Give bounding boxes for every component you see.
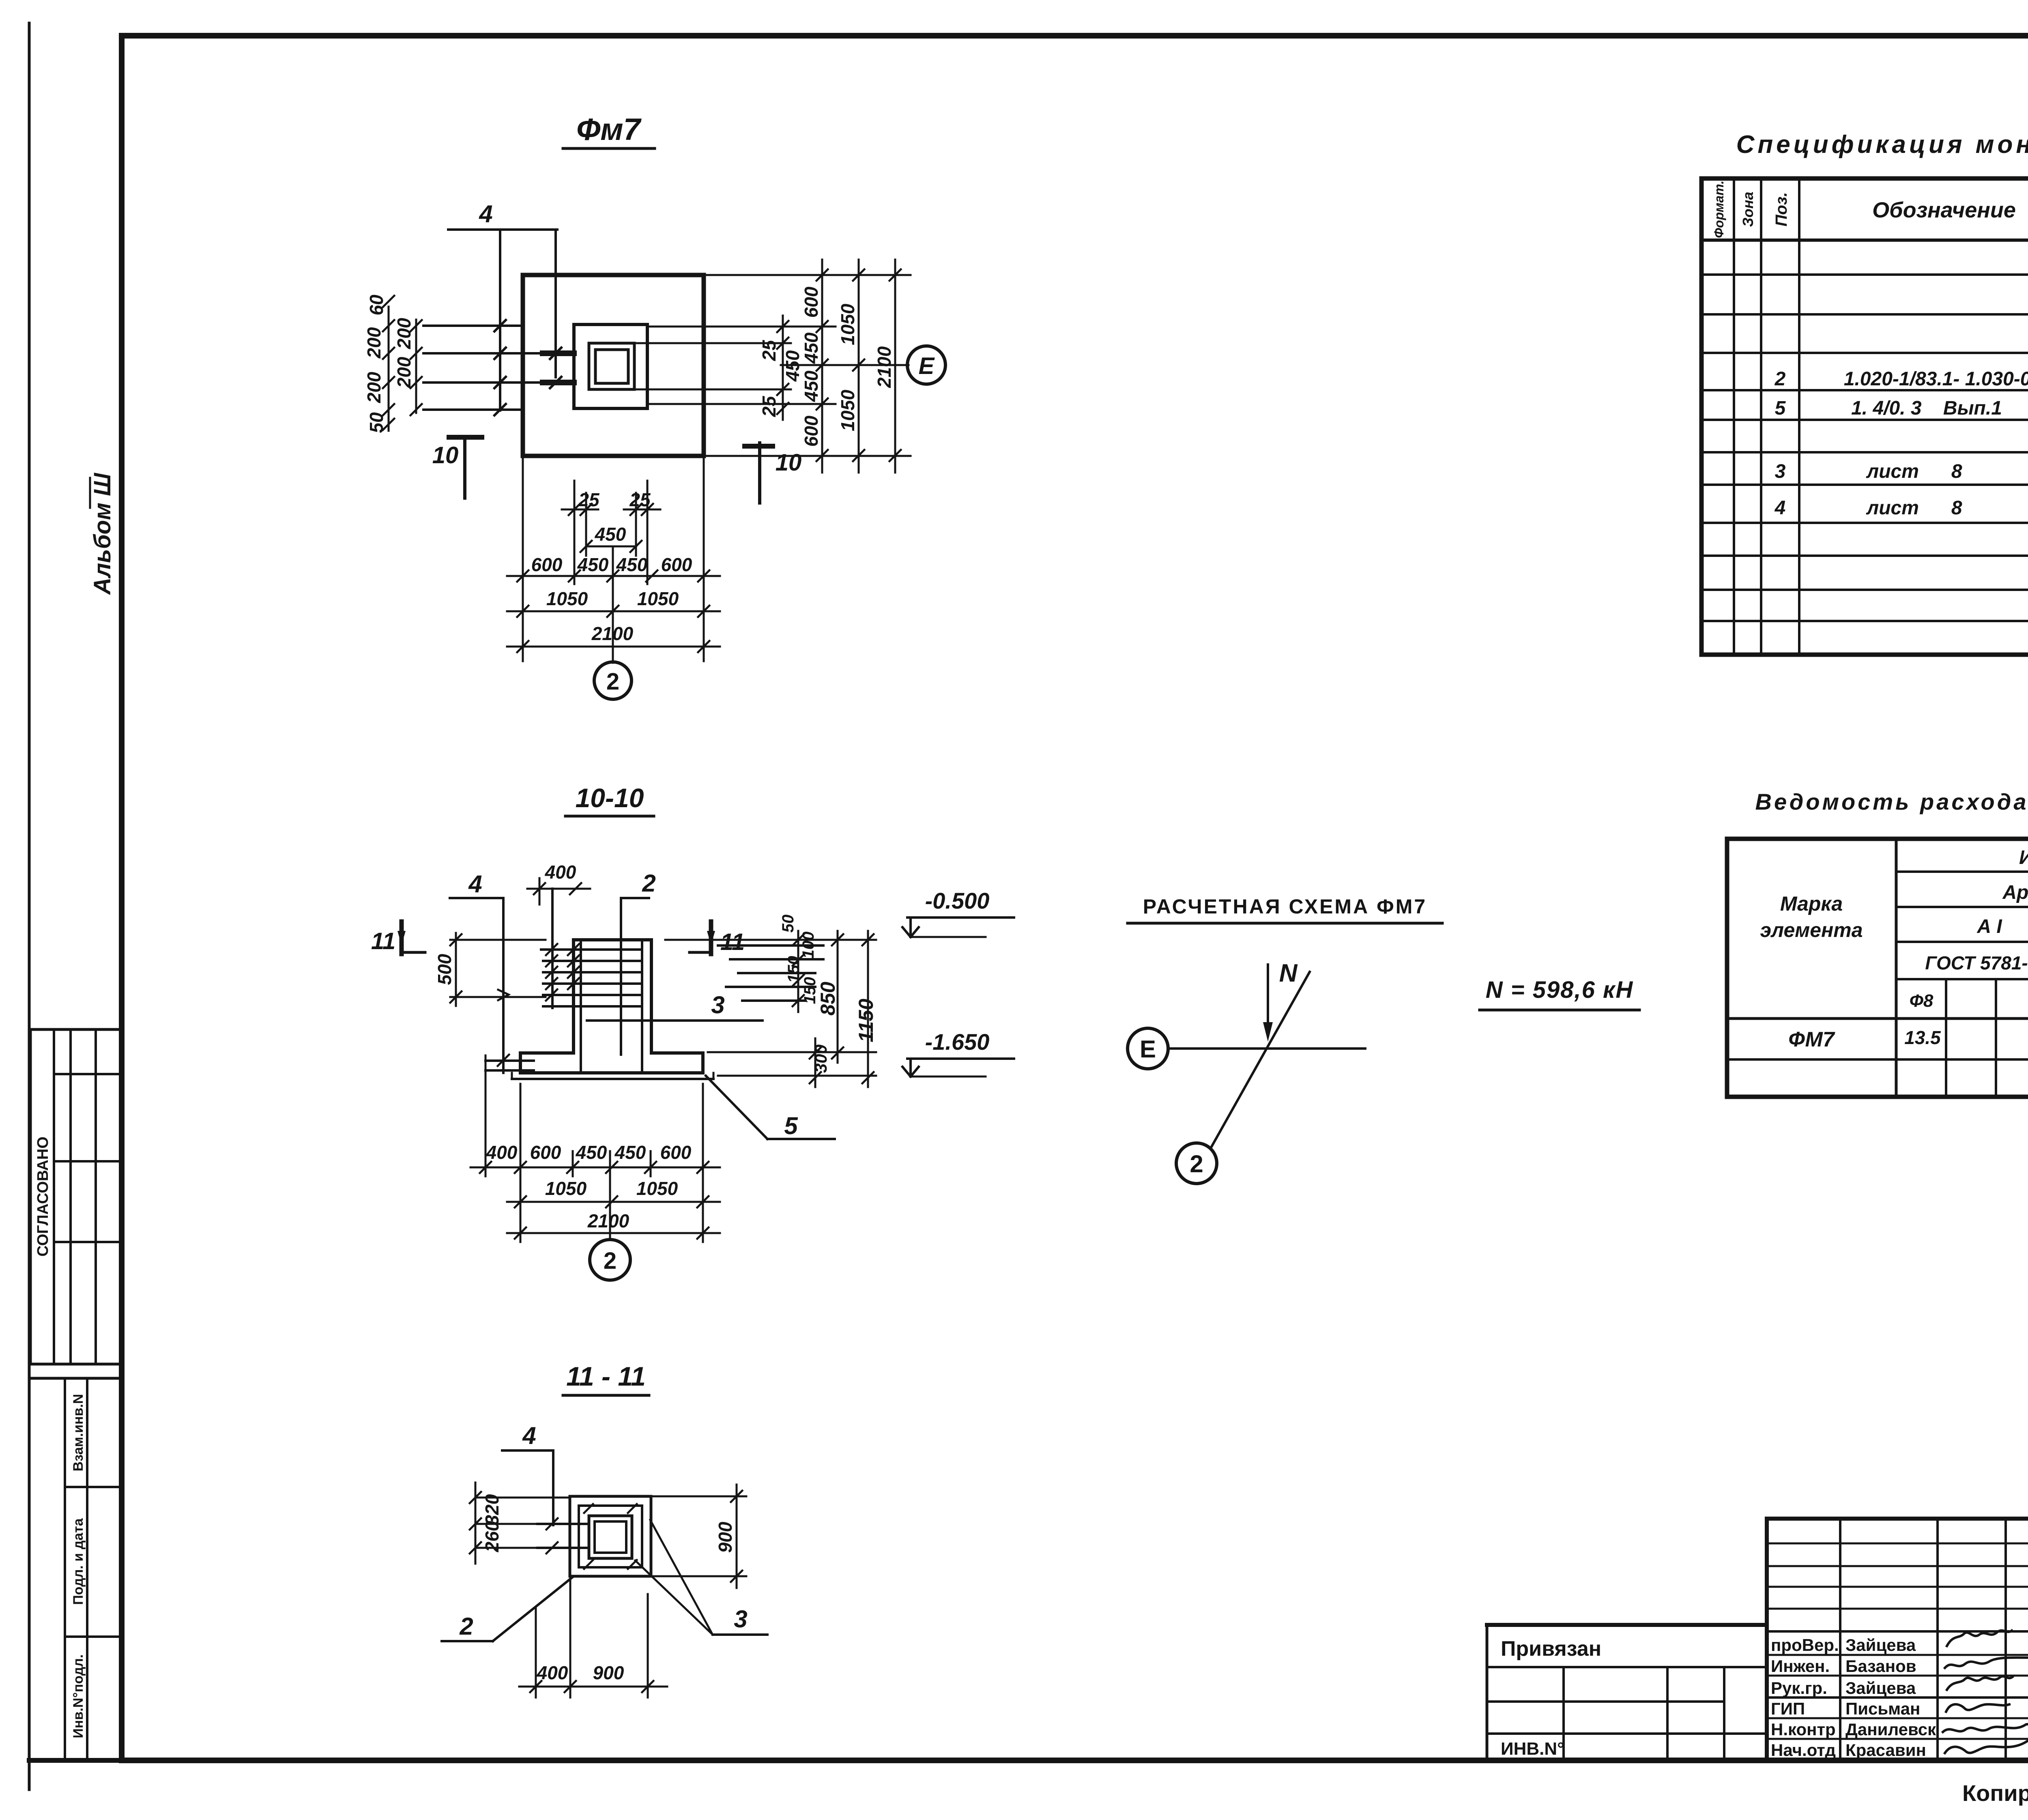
svg-text:60: 60 [366,294,387,316]
svg-text:1050: 1050 [636,1178,678,1199]
dimension 300 (footing thickness) [810,1038,830,1087]
svg-text:А I: А I [1976,916,2002,937]
svg-text:600: 600 [661,554,692,575]
dimension 500 (section left) [434,933,546,1006]
svg-text:450: 450 [801,370,822,402]
specification row pos 5 [1775,393,2028,421]
svg-text:Зайцева: Зайцева [1845,1678,1916,1698]
svg-text:Копировал:: Копировал: [1962,1780,2028,1806]
svg-text:N: N [1279,959,1298,987]
axis bubble 2 (scheme) [1176,1143,1217,1184]
svg-text:450: 450 [577,554,609,575]
svg-text:проВер.: проВер. [1771,1635,1839,1655]
svg-text:600: 600 [801,286,822,318]
specification table grid [1701,178,2028,655]
svg-text:Подл. и дата: Подл. и дата [71,1518,86,1605]
svg-text:600: 600 [801,415,822,447]
dimension 400 900 (section 11-11 bottom) [519,1578,667,1698]
svg-text:10: 10 [432,442,459,468]
svg-text:1050: 1050 [837,389,858,431]
svg-text:ИНВ.N°: ИНВ.N° [1501,1739,1564,1759]
svg-text:1050: 1050 [837,303,858,345]
section title 11-11 [563,1361,649,1395]
plan view title Фм7 [563,112,655,148]
svg-text:400: 400 [486,1142,518,1163]
plan right extension lines [636,275,911,456]
axis bubble 2 (section 10-10) [590,1240,630,1280]
svg-text:200: 200 [363,327,385,359]
svg-text:5: 5 [1775,398,1786,419]
dimension 25 25 (plan bottom) [562,489,660,515]
svg-text:Изделия арматурные: Изделия арматурные [2019,847,2028,868]
svg-text:Спецификация монолитных фунд: Спецификация монолитных фундаментов ФМ7 [1736,131,2028,159]
svg-text:Марка: Марка [1780,892,1843,915]
svg-text:Рук.гр.: Рук.гр. [1771,1678,1827,1698]
dimension 25 450 25 (plan right) [758,316,803,420]
dimension 900 (section 11-11 right) [653,1485,746,1588]
pedestal rebar verticals (section 10-10) [581,940,642,1070]
dimension 2100 (plan bottom) [507,623,720,652]
dimension 450 (plan bottom) [580,524,642,552]
title block: handwritten signatures [1943,1631,2028,1753]
svg-text:260: 260 [481,1521,503,1552]
section title 10-10 [565,783,654,816]
svg-text:200: 200 [363,372,385,403]
svg-text:3: 3 [1775,461,1786,482]
svg-text:1050: 1050 [545,1178,587,1199]
axis line E (scheme) [1168,1047,1365,1050]
svg-text:400: 400 [537,1662,568,1683]
svg-text:1050: 1050 [637,588,679,609]
svg-text:450: 450 [595,524,626,545]
svg-text:Красавин: Красавин [1845,1740,1926,1760]
svg-text:Ф8: Ф8 [1910,991,1933,1011]
dimension chain 400 600 450 450 600 (section bottom) [470,1142,720,1173]
steel table headers [1760,847,2028,1011]
svg-text:Поз.: Поз. [1772,192,1790,227]
svg-text:Альбом Ш: Альбом Ш [89,473,116,595]
svg-text:E: E [919,353,935,379]
svg-text:150: 150 [785,956,803,983]
svg-text:600: 600 [660,1142,692,1163]
leader for item 4 (section 11-11) [502,1422,553,1525]
svg-text:лист 8: лист 8 [1866,461,1962,482]
specification table title [1736,131,2028,159]
scheme title Расчетная схема ФМ7 [1128,895,1442,923]
svg-text:РАСЧЕТНАЯ СХЕМА ФМ7: РАСЧЕТНАЯ СХЕМА ФМ7 [1143,895,1427,918]
svg-text:4: 4 [522,1422,536,1449]
svg-text:3: 3 [711,991,724,1019]
base mesh item 5 (section 10-10) [512,1073,713,1079]
dimension 2100 (plan right) [874,260,901,473]
plan bottom extension lines [523,456,704,663]
svg-text:450: 450 [614,1142,646,1163]
svg-text:-1.650: -1.650 [925,1029,990,1055]
lower-left inventory table [30,1378,122,1758]
svg-text:900: 900 [593,1662,624,1683]
elevation mark -0.500 [902,888,1014,937]
anchor box double outline (section 11-11) [589,1516,632,1558]
section mark 11 (right) [690,922,745,955]
specification row pos 2 [1774,367,2028,390]
leader for item 4 (plan) [448,200,557,410]
svg-text:Н.контр: Н.контр [1771,1720,1836,1739]
svg-text:5: 5 [784,1112,798,1139]
svg-text:850: 850 [816,982,839,1016]
svg-text:600: 600 [530,1142,561,1163]
dimension chain 600 450 450 600 (plan bottom) [507,554,720,582]
svg-text:Нач.отд: Нач.отд [1771,1740,1836,1760]
dimension 1150 (section right) [855,931,877,1087]
axis bubble 2 (plan) [594,662,632,699]
leader for item 3 (section 11-11) [635,1520,767,1635]
svg-text:2: 2 [1190,1150,1203,1178]
svg-text:500: 500 [434,954,455,985]
svg-text:25: 25 [758,395,780,417]
svg-text:Взам.инв.N: Взам.инв.N [71,1394,86,1472]
axis line 2 (scheme) [1212,972,1310,1147]
svg-text:10-10: 10-10 [576,783,644,813]
svg-text:600: 600 [531,554,563,575]
dimension chain 1050 1050 (section bottom) [507,1178,720,1208]
rebar stubs right (section 10-10) [718,945,823,1001]
footer: Копировал line [1962,1777,2028,1807]
drawing sheet outer trim line (left) [28,23,31,1790]
svg-text:25: 25 [629,489,651,510]
svg-text:2: 2 [459,1613,473,1640]
svg-text:ГОСТ 5781- 82: ГОСТ 5781- 82 [1925,952,2028,973]
title block: Привязан table [1487,1625,1767,1760]
section mark 10 (right) [745,443,801,503]
svg-text:Ведомость расхода стали на: Ведомость расхода стали на один элемент, [1755,789,2028,814]
elevation mark -1.650 [902,1029,1014,1077]
svg-text:450: 450 [782,350,803,382]
anchor bolt lines (plan, left) [423,320,574,415]
svg-text:Письман: Письман [1845,1699,1920,1718]
svg-text:11: 11 [371,928,395,954]
svg-text:100: 100 [799,932,817,959]
steel table data row ФМ7 [1788,1022,2028,1051]
title block: signature names [1845,1635,1936,1760]
title block: signature roles [1771,1635,1839,1760]
svg-text:ФМ7: ФМ7 [1788,1028,1835,1051]
anchor box double outline (plan) [589,343,634,389]
svg-text:N = 598,6 кН: N = 598,6 кН [1486,977,1634,1003]
svg-text:1. 4/0. 3 Вып.1: 1. 4/0. 3 Вып.1 [1851,398,2002,419]
dimension chain 600 450 450 600 (plan right) [801,260,828,473]
svg-text:300: 300 [811,1044,830,1073]
pedestal outline (section 11-11) [570,1496,651,1576]
leader for item 5 (section 10-10) [706,1076,835,1139]
section bottom extension lines [486,1071,703,1242]
svg-text:Привязан: Привязан [1501,1637,1601,1661]
svg-text:3: 3 [734,1605,747,1633]
leader for item 2 (section 11-11) [442,1577,573,1641]
svg-text:2100: 2100 [587,1210,629,1231]
dimension chain 1050 1050 (plan right) [837,260,864,473]
СОГЛАСОВАНО approval table [30,1029,122,1364]
pedestal outline (plan) [574,324,647,408]
load value N = 598,6 кН [1480,977,1639,1010]
left dimensions 320 260 (section 11-11) [470,1483,589,1564]
footing outline (section 10-10) [520,1053,703,1073]
stirrup square (section 11-11) [579,1504,642,1569]
svg-text:ГИП: ГИП [1771,1699,1805,1718]
svg-text:Зона: Зона [1740,192,1756,227]
footing outline (plan) [523,275,704,456]
svg-text:50: 50 [366,412,387,433]
section mark 11 (left) [371,922,425,954]
svg-text:4: 4 [1774,497,1786,519]
svg-text:-0.500: -0.500 [925,888,990,913]
axis bubble E (plan) [907,346,945,384]
svg-text:2100: 2100 [591,623,634,644]
dimension 850 (section right) [816,931,843,1063]
svg-text:Арматура класса: Арматура класса [2002,882,2028,903]
svg-text:2100: 2100 [874,346,895,388]
svg-text:Инв.N°подл.: Инв.N°подл. [71,1655,86,1738]
svg-text:320: 320 [481,1494,503,1525]
footing mesh hooks left (section 10-10) [486,1055,534,1075]
svg-text:10: 10 [776,449,802,476]
svg-text:E: E [1140,1036,1156,1063]
dimension 400 (section top) [527,862,590,905]
svg-text:450: 450 [576,1142,607,1163]
svg-text:Обозначение: Обозначение [1872,198,2016,222]
leader for item 3 (section 10-10) [587,991,763,1021]
load arrow N [1263,959,1298,1042]
steel table title [1755,789,2028,838]
svg-text:2: 2 [642,870,655,897]
axis bubble E (scheme) [1128,1028,1168,1069]
specification row pos 3 [1775,461,2028,482]
svg-text:200: 200 [393,318,415,349]
title block: signature tower grid [1767,1519,2028,1760]
svg-text:2: 2 [604,1248,617,1274]
svg-text:2: 2 [1774,368,1786,390]
svg-text:25: 25 [758,340,780,361]
dimension 2100 (section bottom) [507,1210,720,1239]
specification row pos 4 [1774,497,2028,519]
svg-text:лист 8: лист 8 [1866,497,1962,519]
svg-text:450: 450 [616,554,648,575]
svg-text:50: 50 [779,915,797,933]
svg-text:200: 200 [393,357,415,388]
svg-text:1150: 1150 [855,999,877,1042]
svg-text:13.5: 13.5 [1904,1027,1941,1048]
dimension chain 50 100 150 150 (section right) [779,915,819,1012]
svg-text:Базанов: Базанов [1845,1657,1916,1676]
leader for item 2 (section 10-10) [621,870,656,945]
svg-text:Формат.: Формат. [1712,180,1726,238]
vertical label: Альбом III [89,473,116,595]
svg-text:элемента: элемента [1760,919,1863,941]
stirrup lines (section 10-10) [541,889,642,1008]
svg-text:1.020-1/83.1- 1.030-01: 1.020-1/83.1- 1.030-01 [1844,368,2028,390]
svg-text:Фм7: Фм7 [576,112,642,147]
section right extension lines [665,940,876,1076]
svg-text:СОГЛАСОВАНО: СОГЛАСОВАНО [34,1137,52,1257]
svg-text:450: 450 [801,332,822,364]
svg-text:11: 11 [720,929,745,955]
svg-text:2: 2 [606,668,619,695]
svg-text:900: 900 [715,1521,736,1553]
svg-text:4: 4 [479,200,492,228]
specification header labels [1712,180,2028,238]
dimension chain 1050 1050 (plan bottom) [507,588,720,617]
svg-text:400: 400 [545,862,576,883]
left dimension line (plan bolt spacing) [363,294,422,433]
svg-text:4: 4 [468,870,482,898]
leader for item 4 (section 10-10) [450,870,509,1073]
svg-text:Данилевск: Данилевск [1845,1720,1936,1739]
section mark 10 (left) [432,437,482,498]
svg-text:11 - 11: 11 - 11 [566,1361,646,1391]
pedestal outline (section 10-10) [574,940,651,1053]
svg-text:1050: 1050 [546,588,588,609]
anchor bolt leaders (section 11-11) [537,1518,589,1554]
svg-text:Инжен.: Инжен. [1771,1657,1830,1676]
svg-text:Зайцева: Зайцева [1845,1635,1916,1655]
steel table grid [1727,839,2028,1097]
